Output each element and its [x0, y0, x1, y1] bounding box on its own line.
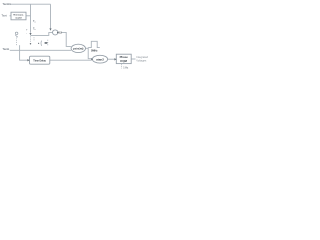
svg-text:Voltages: Voltages — [136, 59, 147, 63]
svg-text:model: model — [15, 17, 22, 19]
svg-text:×0.5: ×0.5 — [57, 31, 63, 35]
svg-text:-: - — [26, 33, 27, 36]
svg-text:Tamb1: Tamb1 — [3, 2, 12, 6]
svg-text:Integrated: Integrated — [136, 55, 148, 59]
svg-text:atan2: atan2 — [96, 57, 104, 61]
svg-text:Time Delay: Time Delay — [33, 59, 46, 62]
svg-text:DQM: DQM — [120, 59, 127, 63]
svg-text:Tamb: Tamb — [3, 47, 10, 51]
svg-text:Tk: Tk — [33, 28, 35, 32]
svg-text:Thermost.: Thermost. — [13, 13, 24, 16]
svg-text:1 Hz: 1 Hz — [123, 66, 129, 69]
svg-text:Tset: Tset — [2, 13, 7, 17]
svg-text:5MHz: 5MHz — [91, 50, 98, 53]
svg-text:psin(πt): psin(πt) — [73, 46, 83, 50]
